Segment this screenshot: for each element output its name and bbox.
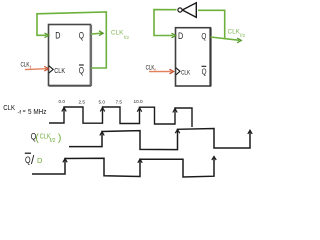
- svg-text:CLK: CLK: [54, 68, 65, 75]
- svg-text:7.5: 7.5: [116, 100, 123, 105]
- svg-text:f/2: f/2: [124, 35, 130, 40]
- inverter U3 (NOT gate): [178, 3, 196, 18]
- arrowhead output U1: [99, 31, 103, 36]
- svg-text:Q: Q: [79, 30, 84, 40]
- svg-text:f/2: f/2: [50, 138, 56, 144]
- svg-text:f/2: f/2: [240, 33, 246, 38]
- svg-text:(: (: [35, 132, 39, 144]
- svg-text:-f: -f: [18, 110, 22, 116]
- wire: U1 Q output (green): [91, 32, 102, 35]
- svg-text:5 MHz: 5 MHz: [28, 109, 47, 116]
- svg-text:CLK: CLK: [3, 103, 15, 112]
- label CLKf (left input): [21, 61, 32, 70]
- svg-text:D: D: [55, 30, 60, 41]
- U2 pin Qbar: [202, 66, 207, 76]
- CLK rise arrows: [62, 108, 66, 112]
- label CLKf (right input): [146, 65, 157, 73]
- wire: U2 Q output (green): [211, 37, 240, 40]
- label Qbar/D (waveform 3): [25, 153, 43, 167]
- svg-text:CLK: CLK: [228, 28, 241, 35]
- svg-text:CLK: CLK: [181, 70, 191, 77]
- arrowhead into D of U2: [172, 33, 176, 38]
- U2 pin CLK with clock wedge: [176, 68, 191, 77]
- D flip-flop U2 (right): [176, 28, 211, 86]
- wire: clock input U1 (red): [25, 68, 47, 71]
- label Q (CLKf/2) (waveform 2): [31, 131, 62, 144]
- svg-text:D: D: [37, 156, 43, 165]
- svg-text:Q: Q: [79, 66, 84, 76]
- svg-text:Q: Q: [202, 67, 207, 77]
- Qbar rise arrows: [63, 159, 67, 163]
- D flip-flop U1 (left): [49, 25, 92, 87]
- time tick labels: [59, 99, 144, 105]
- label CLKf/2 (left, green): [111, 30, 130, 40]
- wire: U1 feedback loop Qbar -> D (green): [37, 12, 106, 68]
- arrowhead clock U2: [170, 69, 174, 74]
- svg-text:10.0: 10.0: [134, 99, 144, 104]
- svg-text:Q: Q: [25, 155, 31, 165]
- waveform CLK trace: [49, 107, 192, 127]
- label CLKf = 5MHz (waveform 1): [3, 103, 47, 116]
- label CLKf/2 (right, green): [228, 28, 246, 38]
- U1 pin CLK with clock wedge: [49, 66, 66, 75]
- svg-text:CLK: CLK: [21, 61, 30, 68]
- svg-text:Q: Q: [201, 31, 206, 41]
- U1 pin Qbar: [79, 65, 84, 76]
- arrowhead into D: [45, 33, 49, 38]
- Q rise arrows: [100, 132, 104, 136]
- svg-text:0.0: 0.0: [59, 99, 66, 104]
- waveform Qbar trace: [32, 157, 214, 178]
- svg-text:=: =: [23, 109, 26, 115]
- svg-text:D: D: [178, 31, 183, 42]
- wire: clock input U2 (red): [149, 71, 172, 73]
- waveform Q trace: [69, 129, 250, 150]
- arrowhead clock U1: [44, 66, 48, 71]
- svg-text:2.5: 2.5: [79, 99, 86, 104]
- svg-text:5.0: 5.0: [99, 99, 106, 104]
- svg-text:): ): [58, 132, 62, 144]
- svg-text:CLK: CLK: [111, 30, 124, 37]
- arrowhead output U2: [237, 38, 241, 43]
- wire: U2 feedback Q -> inverter -> D (green): [198, 10, 225, 38]
